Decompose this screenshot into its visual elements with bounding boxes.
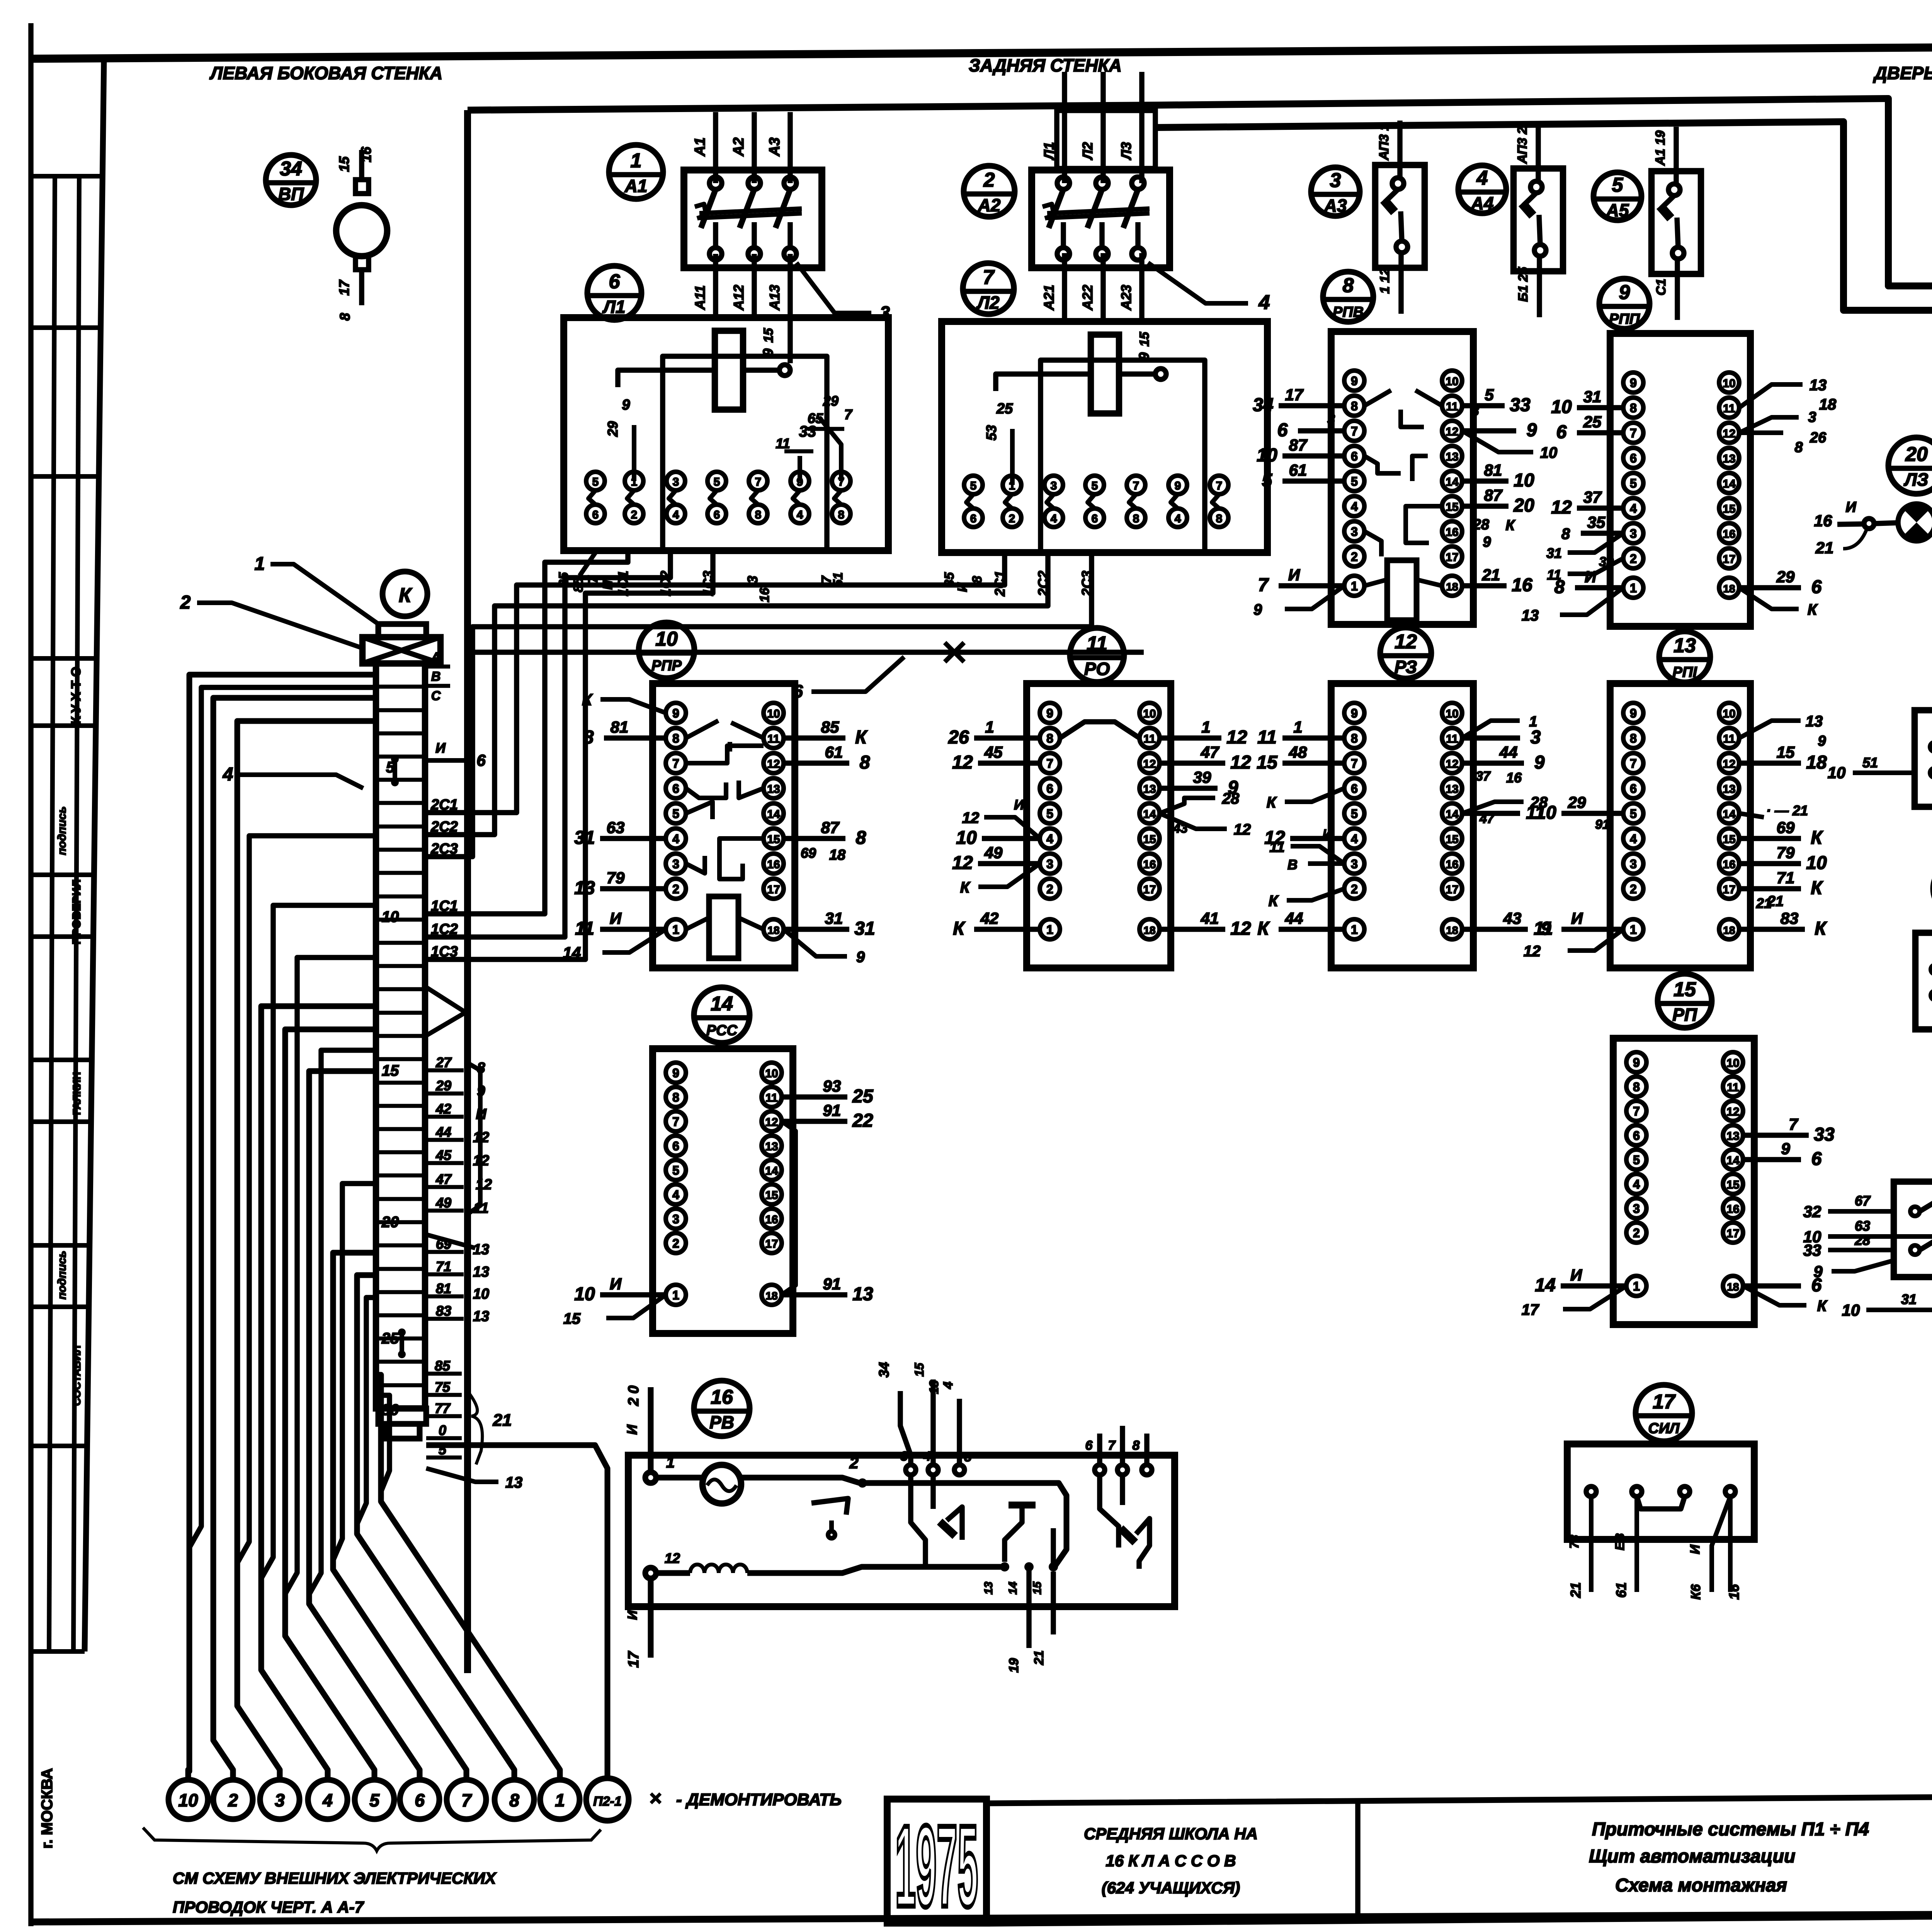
- time relay RV left terminal 1: [645, 1472, 656, 1483]
- svg-text:13: 13: [1723, 783, 1735, 796]
- relay L1 coil: [715, 331, 743, 410]
- relay block 9/РПП right terminals: [1719, 372, 1739, 393]
- svg-text:А3: А3: [1324, 196, 1347, 216]
- svg-text:4: 4: [1630, 502, 1637, 515]
- svg-text:1: 1: [672, 923, 679, 937]
- svg-text:ЕВ: ЕВ: [1613, 1533, 1627, 1550]
- svg-text:15: 15: [1137, 332, 1152, 347]
- svg-text:71: 71: [1777, 869, 1795, 887]
- wire 6 demontage: [468, 650, 1144, 655]
- svg-text:К: К: [855, 727, 868, 748]
- svg-text:11: 11: [1143, 733, 1156, 745]
- svg-text:Приточные системы П1 ÷ П4: Приточные системы П1 ÷ П4: [1592, 1819, 1869, 1840]
- svg-text:2: 2: [228, 1790, 238, 1810]
- svg-text:С1: С1: [1654, 279, 1668, 295]
- svg-text:69: 69: [436, 1236, 451, 1252]
- signal block SIL body: [1567, 1444, 1754, 1539]
- svg-text:2: 2: [1046, 882, 1053, 896]
- svg-text:12: 12: [1723, 758, 1735, 770]
- svg-text:6: 6: [476, 751, 486, 769]
- svg-text:1: 1: [1633, 1279, 1640, 1293]
- svg-text:7: 7: [983, 266, 995, 289]
- pointer 4 on A2: [1148, 263, 1248, 303]
- svg-text:7: 7: [1630, 426, 1637, 440]
- svg-text:37: 37: [1476, 769, 1491, 784]
- svg-text:8: 8: [970, 576, 985, 583]
- svg-text:65: 65: [808, 410, 823, 426]
- designator 34/ВП: [266, 155, 316, 205]
- svg-text:5: 5: [1633, 1153, 1640, 1167]
- svg-text:15: 15: [336, 156, 352, 172]
- svg-text:К У Х Т О: К У Х Т О: [69, 667, 83, 724]
- svg-text:5: 5: [1092, 480, 1098, 492]
- time relay RV adjust contact: [811, 1498, 848, 1515]
- svg-text:10: 10: [1828, 764, 1846, 782]
- svg-text:14: 14: [1007, 1582, 1019, 1595]
- svg-text:13: 13: [982, 1582, 995, 1595]
- wire 1C2: [425, 553, 670, 937]
- relay block 14/РСС body: [653, 1049, 793, 1333]
- svg-text:К: К: [1811, 828, 1823, 848]
- relay block 11/РО body: [1027, 684, 1171, 968]
- svg-text:25: 25: [381, 1330, 399, 1347]
- svg-text:10: 10: [1536, 803, 1556, 823]
- svg-text:И: И: [1585, 568, 1597, 586]
- svg-text:79: 79: [607, 869, 625, 887]
- wire to bottom terminal 5: [285, 1029, 376, 1780]
- svg-text:2 0: 2 0: [626, 1386, 642, 1406]
- relay block 10/РПР coil: [709, 896, 738, 958]
- relay block 13/РПI right terminals: [1719, 703, 1739, 723]
- svg-text:1: 1: [672, 1288, 679, 1302]
- svg-text:18: 18: [1723, 924, 1735, 936]
- svg-text:18: 18: [829, 847, 846, 863]
- svg-text:12: 12: [767, 758, 780, 770]
- svg-text:39: 39: [1193, 768, 1211, 786]
- time relay RV left terminal 12: [645, 1568, 656, 1578]
- svg-text:9: 9: [1633, 1056, 1640, 1070]
- svg-text:9: 9: [1046, 706, 1053, 720]
- signal block SIL leads: [1589, 1497, 1594, 1592]
- svg-text:19: 19: [1007, 1658, 1021, 1673]
- svg-text:13: 13: [1810, 377, 1827, 394]
- svg-text:6: 6: [1630, 451, 1637, 465]
- svg-text:5: 5: [1351, 474, 1358, 488]
- svg-text:43: 43: [1503, 909, 1522, 927]
- relay block 12/РЗ body: [1331, 684, 1473, 968]
- svg-text:1: 1: [1201, 718, 1210, 736]
- svg-text:6: 6: [970, 512, 977, 525]
- svg-text:8: 8: [672, 1090, 679, 1104]
- svg-text:9: 9: [1630, 376, 1637, 390]
- svg-text:15: 15: [1723, 833, 1735, 846]
- svg-text:27: 27: [435, 1054, 452, 1070]
- svg-text:14: 14: [1726, 1154, 1740, 1167]
- svg-text:К: К: [960, 879, 971, 896]
- designator 6/Л1: [587, 266, 641, 320]
- svg-text:1: 1: [1630, 923, 1637, 937]
- svg-text:4: 4: [1633, 1177, 1640, 1191]
- svg-text:РПВ: РПВ: [1333, 304, 1364, 320]
- svg-text:1975: 1975: [895, 1801, 978, 1931]
- svg-text:31: 31: [1901, 1291, 1917, 1307]
- svg-text:6: 6: [672, 782, 679, 796]
- cam switch 27/РВЗ body: [1915, 933, 1932, 1029]
- designator 10/РПР: [639, 622, 694, 678]
- svg-text:9: 9: [1253, 601, 1262, 618]
- wire to bottom terminal 7: [333, 1253, 466, 1780]
- svg-text:33: 33: [1510, 395, 1531, 415]
- svg-text:подпись: подпись: [56, 1251, 68, 1299]
- svg-text:14: 14: [1723, 808, 1736, 821]
- designator 2/А2: [964, 166, 1015, 217]
- svg-text:8: 8: [1133, 1438, 1140, 1453]
- svg-text:8: 8: [1046, 731, 1053, 745]
- time relay RV lead 17: [648, 1578, 654, 1658]
- svg-text:34: 34: [876, 1362, 892, 1378]
- svg-text:4: 4: [1351, 832, 1358, 846]
- svg-text:34: 34: [280, 158, 302, 180]
- selector switch IU leads: [1828, 1209, 1894, 1214]
- svg-text:7: 7: [1216, 480, 1223, 492]
- svg-text:И: И: [1288, 566, 1300, 584]
- svg-text:87: 87: [1289, 436, 1308, 454]
- svg-text:7: 7: [844, 406, 853, 422]
- svg-text:1: 1: [631, 150, 642, 172]
- svg-text:91: 91: [823, 1275, 841, 1293]
- svg-text:10: 10: [473, 1286, 489, 1302]
- svg-text:10: 10: [574, 1284, 595, 1304]
- svg-text:6: 6: [592, 509, 599, 521]
- svg-text:И: И: [1845, 499, 1856, 515]
- svg-text:16: 16: [1814, 512, 1832, 530]
- svg-text:8: 8: [1561, 526, 1570, 543]
- svg-text:44: 44: [1499, 743, 1518, 761]
- terminal strip top cap: [378, 624, 426, 637]
- signal block SIL terminals: [1586, 1486, 1596, 1497]
- svg-text:5: 5: [1612, 174, 1624, 196]
- designator 8/РПВ: [1323, 272, 1373, 322]
- svg-text:В: В: [431, 669, 441, 684]
- svg-text:28: 28: [1473, 517, 1490, 533]
- svg-text:28: 28: [1222, 790, 1240, 807]
- svg-text:2: 2: [1633, 1226, 1640, 1240]
- relay L1 coil wire: [618, 370, 715, 387]
- svg-text:1: 1: [985, 718, 994, 736]
- relay block 15/РП body: [1613, 1038, 1754, 1325]
- svg-text:8: 8: [1216, 512, 1223, 525]
- svg-text:28: 28: [1854, 1232, 1870, 1248]
- svg-text:3: 3: [673, 476, 679, 488]
- svg-text:83: 83: [1781, 909, 1799, 927]
- relay L2 inner frame: [1041, 360, 1205, 551]
- svg-text:4: 4: [673, 509, 679, 521]
- svg-text:РПП: РПП: [1609, 311, 1640, 327]
- svg-text:7: 7: [1108, 1438, 1116, 1453]
- svg-text:7: 7: [755, 476, 762, 488]
- svg-text:- ДЕМОНТИРОВАТЬ: - ДЕМОНТИРОВАТЬ: [676, 1790, 842, 1809]
- svg-text:15: 15: [761, 328, 776, 343]
- svg-text:4: 4: [672, 832, 679, 846]
- svg-text:1 12: 1 12: [1378, 268, 1392, 294]
- relay block 10/РПР right terminals: [764, 703, 784, 723]
- svg-text:1: 1: [1630, 581, 1637, 595]
- svg-text:14: 14: [1535, 1275, 1555, 1296]
- svg-text:А1: А1: [692, 138, 708, 157]
- svg-text:15: 15: [1257, 752, 1278, 773]
- svg-text:20: 20: [381, 1214, 399, 1231]
- svg-text:×: ×: [649, 1787, 662, 1810]
- svg-text:12: 12: [962, 810, 980, 827]
- contactor A2 bottom leads: [1062, 253, 1067, 321]
- svg-text:9: 9: [856, 949, 865, 966]
- svg-text:14: 14: [765, 1165, 778, 1177]
- svg-text:АП3 1: АП3 1: [1377, 123, 1391, 160]
- svg-text:69: 69: [801, 845, 816, 861]
- svg-text:3: 3: [1630, 857, 1637, 871]
- svg-text:3: 3: [1330, 169, 1341, 192]
- svg-text:41: 41: [1201, 909, 1219, 927]
- svg-text:8: 8: [1630, 731, 1637, 745]
- svg-text:4: 4: [1051, 512, 1057, 525]
- svg-text:ЗАДНЯЯ СТЕНКА: ЗАДНЯЯ СТЕНКА: [969, 55, 1122, 75]
- time relay RV internal loop wire: [656, 1475, 703, 1481]
- svg-text:А23: А23: [1118, 285, 1134, 311]
- svg-text:49: 49: [435, 1195, 451, 1211]
- svg-text:47: 47: [435, 1171, 452, 1187]
- svg-text:РВ: РВ: [709, 1412, 734, 1432]
- svg-text:4: 4: [941, 1381, 956, 1389]
- relay L1 top leads: [632, 425, 636, 481]
- svg-text:13: 13: [1522, 607, 1539, 624]
- svg-text:4: 4: [1476, 167, 1488, 189]
- breaker A5: [1651, 127, 1701, 320]
- svg-text:21: 21: [1482, 566, 1500, 584]
- svg-text:15: 15: [1673, 978, 1696, 1001]
- relay block 11/РО right terminals: [1139, 703, 1160, 723]
- relay block RPV leads right: [1462, 403, 1505, 408]
- svg-text:87: 87: [1484, 486, 1503, 504]
- bottom terminal circle 8: [495, 1780, 534, 1819]
- svg-text:16: 16: [1723, 858, 1735, 871]
- svg-text:34: 34: [1253, 395, 1273, 415]
- relay block RPR leads right: [784, 735, 845, 741]
- svg-text:9: 9: [672, 1066, 679, 1080]
- svg-text:8: 8: [1794, 439, 1803, 456]
- svg-text:12: 12: [1226, 727, 1247, 748]
- wire to bottom terminal 4: [261, 1006, 376, 1780]
- svg-text:1: 1: [666, 1454, 675, 1471]
- svg-text:В: В: [1287, 857, 1298, 872]
- svg-text:6: 6: [1277, 420, 1288, 440]
- contactor A2 top leads: [1057, 111, 1155, 168]
- pointer 4 to strip wires: [240, 775, 363, 788]
- svg-text:8: 8: [856, 828, 866, 848]
- svg-text:И: И: [1323, 827, 1333, 842]
- svg-text:СРЕДНЯЯ ШКОЛА НА: СРЕДНЯЯ ШКОЛА НА: [1084, 1825, 1258, 1843]
- svg-text:5: 5: [1485, 386, 1494, 404]
- svg-text:6: 6: [672, 1139, 679, 1153]
- svg-text:16: 16: [711, 1386, 733, 1408]
- svg-text:18: 18: [1446, 924, 1458, 936]
- svg-text:2: 2: [180, 592, 191, 613]
- time relay RV contact group 3: [1100, 1475, 1119, 1548]
- relay L2 top leads: [1010, 429, 1015, 485]
- svg-text:Л1: Л1: [602, 297, 625, 317]
- svg-text:И: И: [1014, 797, 1024, 813]
- designator 20/ЛЗ: [1888, 437, 1932, 494]
- svg-text:К: К: [953, 918, 966, 939]
- svg-text:А4: А4: [1471, 193, 1494, 213]
- svg-text:13: 13: [1143, 783, 1156, 796]
- svg-text:5: 5: [369, 1790, 380, 1810]
- svg-text:7: 7: [1630, 757, 1637, 770]
- svg-text:1: 1: [555, 1790, 565, 1810]
- svg-text:10: 10: [1723, 707, 1735, 720]
- svg-text:45: 45: [435, 1147, 452, 1163]
- contactor A1 body: [684, 170, 822, 268]
- svg-text:6: 6: [793, 681, 803, 701]
- svg-text:33: 33: [1814, 1124, 1835, 1145]
- svg-text:17: 17: [765, 1238, 778, 1250]
- svg-text:12: 12: [1446, 425, 1458, 438]
- svg-text:31: 31: [854, 918, 875, 939]
- svg-text:5: 5: [964, 1450, 972, 1464]
- svg-text:4: 4: [672, 1188, 679, 1202]
- svg-text:16: 16: [1512, 575, 1532, 595]
- svg-text:26: 26: [1810, 430, 1827, 446]
- svg-text:9: 9: [760, 349, 776, 356]
- svg-text:21: 21: [1568, 1582, 1583, 1598]
- svg-text:29: 29: [605, 421, 621, 437]
- svg-text:2: 2: [1630, 882, 1637, 896]
- svg-text:10: 10: [1446, 707, 1458, 720]
- svg-text:ПРОВЕРИЛ: ПРОВЕРИЛ: [70, 879, 83, 945]
- svg-text:8: 8: [337, 313, 353, 321]
- svg-text:6: 6: [1630, 782, 1637, 796]
- svg-text:18: 18: [765, 1290, 777, 1302]
- svg-text:9: 9: [1351, 374, 1358, 388]
- svg-text:ЛЗ: ЛЗ: [1903, 469, 1928, 490]
- svg-text:2: 2: [672, 1236, 679, 1250]
- relay block 8/РПВ right terminals: [1442, 371, 1462, 391]
- svg-text:81: 81: [436, 1281, 451, 1296]
- svg-text:3: 3: [672, 857, 679, 871]
- svg-text:СИЛ: СИЛ: [1648, 1420, 1680, 1437]
- svg-text:5: 5: [672, 1163, 679, 1177]
- svg-text:71: 71: [436, 1259, 451, 1274]
- svg-text:8: 8: [1633, 1080, 1640, 1094]
- breaker A3: [1375, 121, 1425, 314]
- svg-text:16: 16: [1726, 1203, 1739, 1216]
- svg-text:7: 7: [672, 1115, 679, 1129]
- wire to bottom terminal 10: [188, 675, 376, 1780]
- svg-text:И: И: [625, 1610, 640, 1620]
- svg-text:А1: А1: [624, 176, 648, 196]
- svg-text:К6: К6: [1689, 1584, 1703, 1600]
- svg-text:18: 18: [1143, 924, 1155, 936]
- svg-text:8: 8: [509, 1790, 519, 1810]
- svg-text:8: 8: [1351, 731, 1358, 745]
- svg-text:14: 14: [1446, 476, 1459, 488]
- designator 17/СИЛ: [1636, 1385, 1692, 1441]
- svg-text:2: 2: [849, 1454, 858, 1472]
- svg-text:РО: РО: [1084, 659, 1110, 679]
- wire 1C3: [425, 553, 713, 959]
- svg-text:8: 8: [1343, 274, 1354, 297]
- time relay RV inductor: [690, 1565, 747, 1573]
- svg-text:63: 63: [1855, 1218, 1870, 1234]
- svg-text:3: 3: [1046, 857, 1053, 871]
- svg-text:1: 1: [255, 554, 265, 574]
- svg-text:К: К: [399, 584, 412, 607]
- designator 15/РП: [1658, 974, 1712, 1028]
- svg-text:6: 6: [1633, 1129, 1640, 1143]
- svg-text:12: 12: [1551, 497, 1572, 518]
- svg-text:12: 12: [952, 752, 973, 773]
- svg-text:А22: А22: [1080, 285, 1095, 311]
- relay block RPV coil: [1387, 560, 1417, 620]
- relay block RO internal jumper: [1060, 722, 1139, 738]
- svg-text:А2: А2: [731, 138, 747, 157]
- svg-text:18: 18: [1806, 752, 1827, 773]
- svg-text:г. МОСКВА: г. МОСКВА: [39, 1768, 56, 1849]
- svg-text:И: И: [1688, 1544, 1702, 1554]
- relay block 12/РЗ right terminals: [1442, 703, 1462, 723]
- contactor A2 body: [1032, 170, 1170, 268]
- svg-text:10: 10: [956, 828, 977, 848]
- svg-text:9: 9: [622, 397, 630, 413]
- bottom terminal circle 10: [168, 1780, 208, 1819]
- svg-text:17: 17: [767, 883, 780, 896]
- svg-text:А13: А13: [767, 285, 782, 311]
- svg-text:И: И: [1571, 909, 1583, 927]
- selector switch IU bottom lead: [1866, 1255, 1932, 1310]
- svg-text:(624 УЧАЩИХСЯ): (624 УЧАЩИХСЯ): [1102, 1879, 1240, 1897]
- svg-text:49: 49: [984, 844, 1003, 862]
- svg-text:15: 15: [767, 833, 780, 846]
- wire 2C1: [425, 553, 1005, 813]
- svg-text:10: 10: [1723, 377, 1735, 390]
- bottom terminal circle 4: [308, 1780, 347, 1819]
- svg-text:4: 4: [797, 509, 803, 521]
- svg-text:15: 15: [563, 1310, 581, 1327]
- svg-text:4: 4: [322, 1790, 333, 1810]
- svg-text:33: 33: [1803, 1241, 1821, 1259]
- bottom terminal circle 7: [447, 1780, 486, 1819]
- svg-text:21: 21: [1767, 893, 1784, 910]
- svg-text:5: 5: [592, 476, 599, 488]
- svg-text:К: К: [1808, 601, 1818, 618]
- svg-text:4: 4: [1351, 500, 1358, 514]
- svg-text:13: 13: [1446, 783, 1458, 796]
- svg-text:18: 18: [767, 924, 779, 936]
- svg-text:12: 12: [1723, 427, 1735, 440]
- svg-text:8: 8: [860, 752, 870, 773]
- svg-text:2: 2: [1009, 512, 1015, 525]
- svg-text:63: 63: [607, 818, 625, 837]
- designator 11/РО: [1070, 628, 1124, 682]
- wire rear wall left edge: [464, 110, 471, 1673]
- svg-text:7: 7: [461, 1790, 472, 1810]
- svg-text:А11: А11: [692, 285, 708, 310]
- svg-text:11: 11: [1727, 1081, 1739, 1094]
- svg-text:10: 10: [1806, 853, 1827, 873]
- svg-text:16: 16: [1726, 1584, 1742, 1600]
- bottom terminal circle P2-1: [586, 1778, 629, 1821]
- svg-text:17: 17: [1522, 1301, 1539, 1318]
- svg-text:9: 9: [1175, 480, 1181, 492]
